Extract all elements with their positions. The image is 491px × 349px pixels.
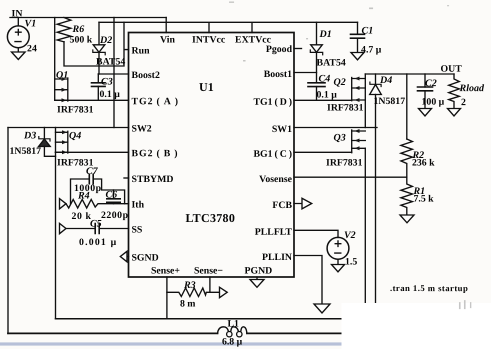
ground (Rload) [448, 109, 461, 117]
svg-text:Q4: Q4 [69, 130, 81, 141]
svg-text:IRF7831: IRF7831 [57, 104, 94, 115]
svg-text:PLLIN: PLLIN [262, 252, 292, 263]
capacitor C7 loop [71, 166, 125, 204]
svg-text:100 μ: 100 μ [422, 97, 445, 108]
capacitor C3 [92, 74, 121, 100]
wire input drop to SW2 [113, 18, 115, 128]
diode D1 BAT54 [310, 22, 346, 83]
wire BG2 [56, 151, 129, 153]
svg-text:Vin: Vin [160, 34, 175, 45]
svg-text:IRF7831: IRF7831 [326, 158, 363, 169]
svg-text:Q2: Q2 [334, 77, 346, 88]
svg-text:R6: R6 [72, 24, 85, 35]
svg-text:1N5817: 1N5817 [10, 146, 42, 157]
svg-text:L1: L1 [227, 318, 239, 329]
wire R6 to Run [64, 22, 129, 66]
svg-text:LTC3780: LTC3780 [185, 211, 235, 225]
wire BG1 [294, 151, 352, 153]
terminal arrow (Ith) [60, 199, 67, 209]
svg-text:Vosense: Vosense [259, 174, 292, 185]
terminal arrow (SS) [60, 223, 67, 233]
svg-text:PLLFLT: PLLFLT [255, 227, 293, 238]
wire bottom rail 1 [56, 318, 342, 320]
svg-text:INTVcc: INTVcc [192, 34, 226, 45]
wire Q3 source drop [364, 148, 366, 303]
inductor L1 [218, 318, 247, 347]
svg-text:C4: C4 [319, 74, 331, 85]
svg-text:U1: U1 [199, 80, 214, 94]
svg-text:7.5 k: 7.5 k [413, 194, 434, 205]
svg-text:236 k: 236 k [412, 158, 435, 169]
simulation directive [390, 283, 468, 293]
svg-text:OUT: OUT [441, 64, 463, 75]
wire EXTVcc stub [251, 24, 253, 33]
node OUT wire [365, 73, 454, 75]
svg-text:.tran 1.5 m startup: .tran 1.5 m startup [390, 283, 468, 293]
svg-text:20 k: 20 k [71, 211, 91, 222]
IC U1 LTC3780 box [129, 33, 295, 278]
capacitor C1 [351, 22, 382, 55]
resistor R4 [64, 190, 129, 222]
svg-text:C7: C7 [86, 166, 99, 177]
capacitor C5 [66, 218, 129, 248]
svg-text:Run: Run [132, 45, 151, 56]
wire SW1 drop [375, 128, 377, 304]
transistor Q1 IRF7831 [55, 18, 94, 116]
capacitor C6 [101, 189, 129, 221]
white mask bottom-right [342, 303, 491, 349]
svg-text:C3: C3 [101, 76, 113, 87]
wire SW1 [294, 127, 377, 129]
wire Sense+ drop [166, 277, 168, 319]
svg-text:Boost1: Boost1 [264, 69, 292, 80]
svg-text:BAT54: BAT54 [96, 56, 125, 67]
svg-text:1N5817: 1N5817 [374, 96, 406, 107]
resistor R2 [401, 139, 435, 177]
transistor Q3 IRF7831 [326, 129, 365, 169]
wire Boost1 [294, 72, 317, 74]
diode D3 1N5817 [10, 128, 56, 157]
svg-text:C2: C2 [425, 78, 437, 89]
wire PLLIN to ground [294, 256, 322, 305]
ground (V1) [12, 48, 26, 60]
chip pin labels [131, 34, 292, 276]
voltage source V2 [327, 230, 357, 268]
wire input rail A [10, 17, 166, 19]
svg-text:FCB: FCB [272, 200, 292, 211]
svg-text:TG1 ( D ): TG1 ( D ) [253, 97, 292, 108]
svg-text:SW2: SW2 [132, 123, 152, 134]
svg-text:6.8 μ: 6.8 μ [222, 336, 243, 347]
wire Vosense [294, 176, 407, 178]
svg-text:BAT54: BAT54 [317, 58, 346, 69]
svg-text:Boost2: Boost2 [132, 70, 160, 81]
wire Vin drop [165, 18, 167, 33]
wire R2 feed from OUT [406, 74, 408, 139]
svg-text:BG1 ( C ): BG1 ( C ) [253, 149, 292, 160]
svg-text:V2: V2 [344, 230, 356, 241]
terminal arrow (SGND) [120, 251, 128, 261]
ground (PGND) [250, 277, 264, 287]
svg-text:Ith: Ith [131, 199, 144, 210]
wire Q4 source to bottom rail [55, 152, 57, 318]
scan tint band bottom [0, 342, 344, 345]
wire TG1 [294, 99, 352, 101]
svg-text:TG2 ( A ): TG2 ( A ) [132, 96, 180, 107]
capacitor C2 [418, 74, 445, 109]
voltage source V1 [7, 18, 37, 55]
svg-text:SS: SS [131, 224, 142, 235]
svg-text:C6: C6 [105, 189, 117, 200]
svg-text:D2: D2 [99, 35, 112, 46]
wire INTVcc stub [208, 24, 210, 33]
wire PLLFLT to V2 [294, 230, 338, 237]
svg-text:24: 24 [27, 43, 37, 54]
svg-text:PGND: PGND [244, 265, 272, 276]
svg-text:Rload: Rload [459, 83, 485, 94]
ground (V2) [332, 259, 345, 272]
svg-text:R4: R4 [77, 190, 90, 201]
wire SW2 [8, 127, 129, 129]
svg-text:SW1: SW1 [272, 124, 292, 135]
svg-text:500 k: 500 k [70, 34, 93, 45]
svg-text:C1: C1 [362, 26, 374, 37]
svg-text:EXTVcc: EXTVcc [235, 34, 272, 45]
wire TG2 [55, 99, 129, 101]
svg-text:BG2 ( B ): BG2 ( B ) [132, 148, 179, 159]
transistor Q4 IRF7831 [56, 128, 94, 169]
resistor R6 [57, 18, 92, 46]
svg-text:2200p: 2200p [101, 210, 129, 221]
svg-text:R3: R3 [183, 280, 196, 291]
resistor Rload [449, 74, 485, 109]
svg-text:IRF7831: IRF7831 [327, 103, 364, 114]
svg-text:0.1 μ: 0.1 μ [100, 89, 121, 100]
wire SW2 to L1 (left riser) [7, 128, 9, 334]
svg-text:8 m: 8 m [180, 298, 196, 309]
ground (C1) [351, 53, 364, 60]
diode D4 1N5817 [370, 74, 406, 128]
svg-text:Q3: Q3 [334, 133, 346, 144]
svg-text:Q1: Q1 [56, 70, 68, 81]
ground (R1) [400, 215, 414, 223]
wire Vcc bus B [99, 21, 358, 23]
resistor R1 [401, 177, 434, 215]
diode D2 BAT54 [93, 22, 126, 74]
wire Boost2 [98, 73, 128, 75]
svg-text:Pgood: Pgood [266, 44, 293, 55]
svg-text:0.1 μ: 0.1 μ [317, 90, 338, 101]
svg-text:D1: D1 [319, 29, 332, 40]
svg-text:Sense+: Sense+ [151, 265, 180, 276]
svg-text:2: 2 [461, 97, 466, 108]
svg-text:STBYMD: STBYMD [131, 174, 173, 185]
pin stub Pgood [294, 48, 302, 50]
resistor R3 [167, 280, 220, 310]
svg-text:D3: D3 [23, 130, 36, 141]
svg-text:SGND: SGND [131, 252, 158, 263]
svg-text:4.7 μ: 4.7 μ [361, 45, 382, 56]
terminal arrow (FCB) [294, 198, 312, 209]
pin stub STBYMD [124, 177, 129, 179]
transistor Q2 IRF7831 [327, 74, 365, 128]
terminal arrow (R3) [220, 287, 228, 298]
wire Sense- drop [209, 277, 211, 292]
node IN label [12, 8, 23, 19]
svg-text:0.001 μ: 0.001 μ [79, 237, 117, 248]
svg-text:C5: C5 [90, 218, 102, 229]
svg-text:D4: D4 [379, 75, 392, 86]
ground (C2) [419, 109, 432, 117]
wire bottom rail 2 with L1 [8, 332, 343, 334]
svg-text:1.5: 1.5 [345, 257, 357, 268]
ground (PLLIN) [314, 304, 330, 313]
svg-text:Sense−: Sense− [194, 265, 223, 276]
svg-text:V1: V1 [25, 18, 37, 29]
capacitor C4 [308, 74, 337, 101]
